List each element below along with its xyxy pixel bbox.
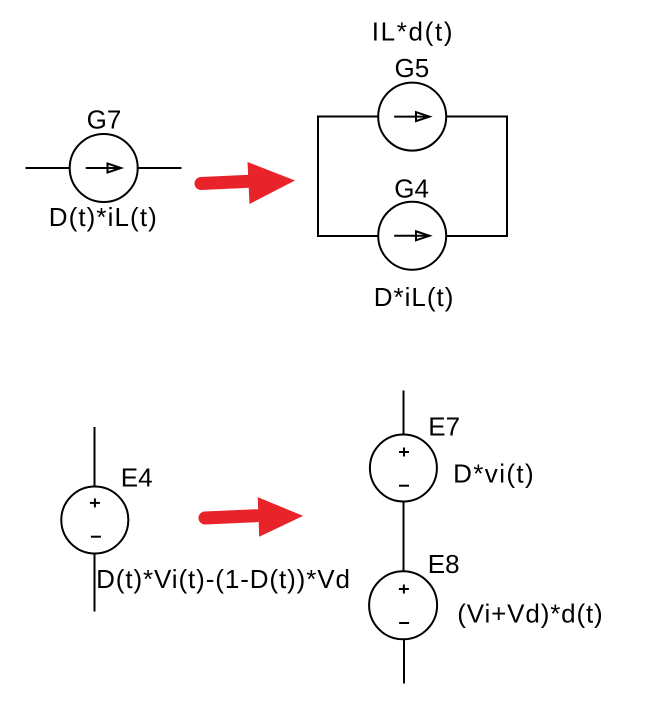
wire left of G7 <box>25 167 69 169</box>
wire above E4 <box>94 427 96 487</box>
plus sign <box>399 451 409 453</box>
svg-text:D*vi(t): D*vi(t) <box>453 459 535 489</box>
wire top-right horizontal <box>446 116 507 118</box>
current source G4 <box>378 202 446 270</box>
wire between E7 and E8 <box>403 502 405 572</box>
voltage source E4 <box>61 487 128 554</box>
svg-text:E4: E4 <box>121 463 153 493</box>
wire bottom-left horizontal <box>318 235 378 237</box>
voltage source E8 <box>369 571 437 639</box>
wire above E7 <box>403 391 405 435</box>
svg-text:G4: G4 <box>394 174 429 204</box>
current source G5 <box>378 83 446 151</box>
wire below E8 <box>403 639 405 683</box>
voltage source E7 <box>370 435 437 502</box>
wire top-left horizontal <box>318 116 378 118</box>
wire below E4 <box>94 554 96 612</box>
wire: parallel loop rectangle <box>318 116 507 237</box>
svg-text:E7: E7 <box>428 411 460 441</box>
wire right of G7 <box>138 167 182 169</box>
minus sign <box>91 536 101 538</box>
red arrow 2 <box>205 497 303 537</box>
svg-text:IL*d(t): IL*d(t) <box>372 17 454 47</box>
svg-text:D(t)*Vi(t)-(1-D(t))*Vd: D(t)*Vi(t)-(1-D(t))*Vd <box>96 564 351 594</box>
svg-text:(Vi+Vd)*d(t): (Vi+Vd)*d(t) <box>457 598 603 628</box>
minus sign <box>399 622 409 624</box>
svg-text:G5: G5 <box>395 53 430 83</box>
wire bottom-right horizontal <box>446 235 507 237</box>
minus sign <box>399 485 409 487</box>
red arrow 1 <box>201 162 295 204</box>
svg-text:G7: G7 <box>87 105 122 135</box>
current source G7 <box>70 134 138 202</box>
plus sign <box>399 588 409 590</box>
svg-text:D*iL(t): D*iL(t) <box>374 282 455 312</box>
wire right vertical <box>506 116 508 237</box>
svg-text:D(t)*iL(t): D(t)*iL(t) <box>49 202 158 232</box>
wire left vertical <box>317 116 319 237</box>
plus sign <box>90 502 100 504</box>
svg-text:E8: E8 <box>428 549 460 579</box>
